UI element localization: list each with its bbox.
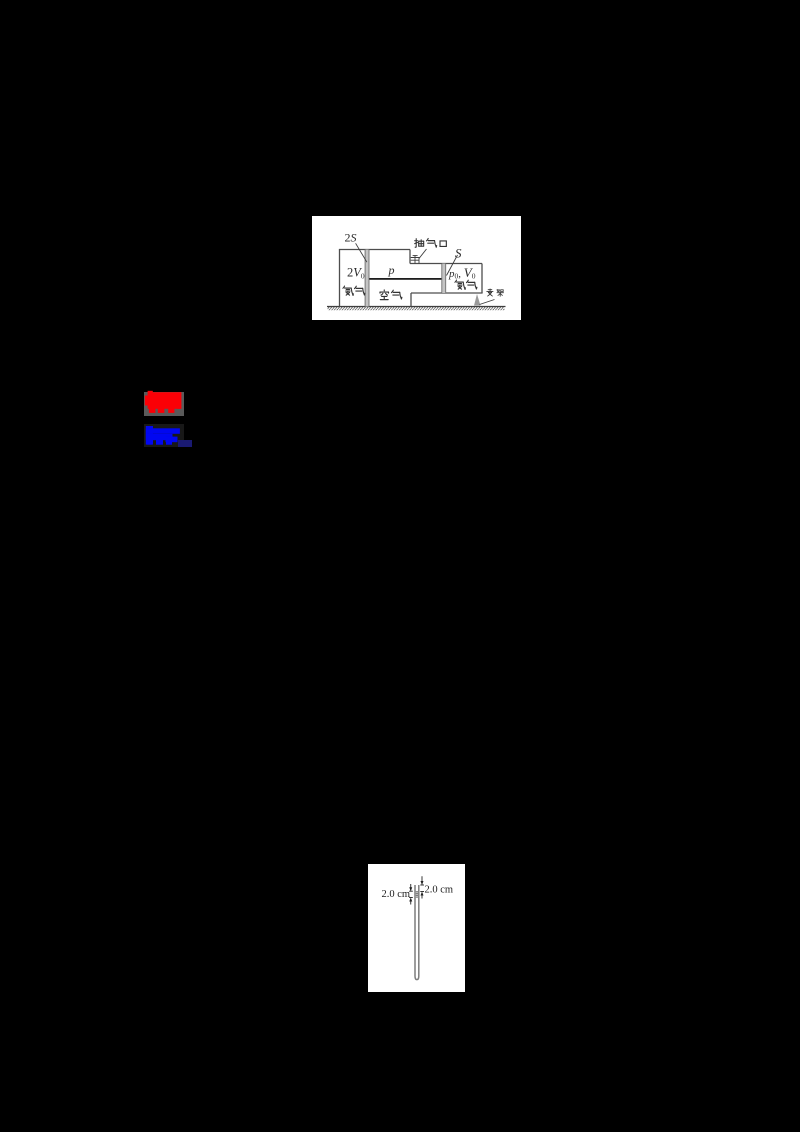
support triangle (474, 294, 481, 306)
left dimension upper arrow (410, 884, 412, 891)
right dimension lower arrow (420, 891, 424, 893)
pointer line from 2S to piston 1 (356, 243, 367, 262)
pointer line from 支架 to triangle (480, 300, 495, 305)
top wall of narrow cylinder (410, 263, 482, 265)
pointer line to pump port label (419, 249, 427, 259)
glyph defs for CJK label shapes (0, 0, 5, 5)
ground line (327, 306, 506, 308)
right cylinder right wall (481, 264, 483, 294)
label 氮气 left (343, 286, 353, 295)
svg-text:p0, V0: p0, V0 (448, 265, 476, 281)
piston rod (369, 278, 441, 280)
mercury column (416, 892, 418, 898)
right dimension upper arrow (421, 876, 423, 884)
left dimension lower arrow (409, 897, 413, 899)
bottom wall of narrow cylinder (411, 292, 483, 294)
label 抽气口 (415, 239, 424, 248)
svg-text:p: p (388, 263, 395, 277)
left cylinder left wall (339, 250, 341, 307)
red blob (145, 391, 182, 413)
piston 2 (area S) (442, 264, 447, 294)
svg-text:2V0: 2V0 (347, 266, 365, 281)
pointer line from S to piston 2 (447, 255, 458, 276)
svg-text:2S: 2S (345, 231, 357, 245)
answer marker (red) (144, 392, 184, 416)
analysis marker (blue) (144, 424, 184, 447)
test tube (415, 885, 419, 980)
label 支架 (487, 289, 493, 296)
svg-text:2.0 cm: 2.0 cm (382, 889, 411, 900)
piston 1 (area 2S) (365, 250, 370, 307)
support block left wall (410, 293, 412, 307)
pump port valve (411, 255, 419, 263)
step down wall at pump port (409, 250, 411, 264)
svg-text:2.0 cm: 2.0 cm (425, 885, 454, 896)
left cylinder top wall (339, 249, 410, 251)
label 氮气 right (455, 280, 465, 289)
blue blob (146, 426, 180, 445)
figure 2: test tube with mercury panel (368, 864, 465, 992)
navy tag (178, 440, 193, 447)
label 空气 (380, 290, 389, 300)
figure 1: piston-cylinder apparatus panel (312, 216, 521, 320)
